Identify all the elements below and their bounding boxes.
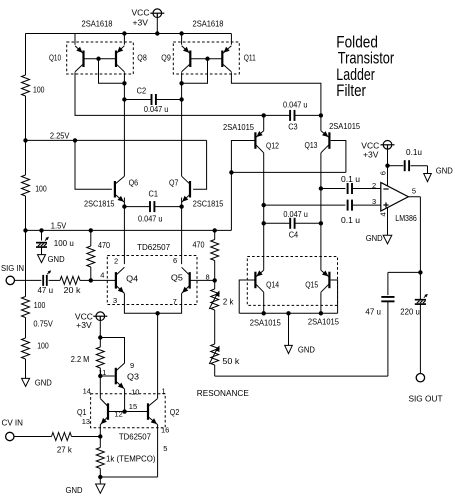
node pin8 junction (213, 278, 217, 282)
svg-text:4: 4 (100, 270, 104, 279)
svg-text:0.047 u: 0.047 u (144, 104, 169, 114)
svg-text:27 k: 27 k (57, 445, 73, 455)
junction C3 right / Q13 emitter (319, 113, 323, 117)
wire nodeA to 2.2M (99, 338, 101, 348)
enclosure Q10/Q8 dashed box (67, 42, 134, 74)
wire Q7 emitter to C1 node (181, 198, 183, 207)
wire Q8 collector column (123, 72, 125, 176)
svg-text:100: 100 (37, 341, 49, 351)
junction 2.25V at Q6 base drop (73, 138, 77, 142)
svg-text:+3V: +3V (133, 18, 149, 28)
wire Q7 emitter column to Q5 collector (181, 207, 183, 265)
op-amp plus sign (383, 204, 388, 206)
wire node4 to Q4 base (91, 279, 116, 281)
node Q1/Q2 base junction (122, 409, 126, 413)
wire Q14 base tie (239, 280, 255, 313)
wire Q6 emitter column to Q4 collector (123, 207, 125, 265)
svg-text:GND: GND (35, 378, 52, 388)
node output junction (418, 270, 422, 274)
svg-text:470: 470 (193, 240, 205, 250)
junction Q13 collector to pin2 cap (319, 186, 323, 190)
resistor 100 R-top2 (22, 175, 30, 196)
wire C2 right (156, 99, 182, 101)
wire 1.5V rail (26, 229, 232, 231)
junction 1.5V at 100u (39, 228, 43, 232)
svg-text:Q11: Q11 (244, 53, 256, 63)
wire pin5 output (408, 196, 420, 198)
svg-text:TD62507: TD62507 (119, 432, 151, 442)
node Q9/Q11 base junction (205, 57, 209, 61)
wire Q11 base (208, 58, 223, 60)
svg-text:1: 1 (162, 387, 166, 396)
svg-text:2: 2 (372, 181, 376, 190)
wire base bus (231, 171, 346, 173)
svg-text:SIG IN: SIG IN (1, 263, 24, 273)
ground GND bottom (96, 484, 105, 493)
svg-text:Q15: Q15 (305, 280, 318, 290)
svg-text:6: 6 (173, 256, 177, 265)
node pin4 junction (89, 278, 93, 282)
svg-text:RESONANCE: RESONANCE (197, 388, 249, 398)
svg-text:2SA1015: 2SA1015 (308, 317, 339, 327)
capacitor 220 u (415, 299, 426, 301)
wire 2k to 50k (214, 310, 216, 344)
svg-text:Q8: Q8 (137, 53, 147, 63)
capacitor C 100u (36, 242, 47, 244)
wire Q9 emitter up (181, 34, 183, 45)
wire Q3 base (100, 375, 114, 377)
svg-text:16: 16 (161, 426, 169, 435)
wire 1k to bottom (99, 469, 101, 478)
power VCC +3V lower symbol (96, 312, 105, 321)
svg-text:Q5: Q5 (171, 273, 183, 283)
wire resonance bottom (215, 375, 388, 377)
wire 2.2M to pin11 node (99, 368, 101, 376)
svg-text:Ladder: Ladder (336, 66, 375, 84)
svg-text:Q12: Q12 (266, 141, 279, 151)
junction C2 left (122, 97, 126, 101)
wire 50k down (214, 365, 216, 376)
wire node to 1k (99, 437, 101, 448)
svg-text:LM386: LM386 (395, 213, 417, 223)
svg-text:SIG OUT: SIG OUT (409, 394, 443, 404)
node A vcc junction (98, 335, 102, 339)
svg-text:2SA1015: 2SA1015 (329, 121, 360, 131)
transistor Q5 (189, 272, 191, 289)
svg-text:Q13: Q13 (305, 140, 318, 150)
wire ladder to 1.5V (25, 196, 27, 230)
wire 27k to node (72, 436, 101, 438)
svg-text:TD62507: TD62507 (137, 242, 170, 252)
svg-text:1k (TEMPCO): 1k (TEMPCO) (106, 454, 156, 464)
node pin11 junction (98, 374, 102, 378)
svg-text:Q6: Q6 (129, 178, 139, 188)
transistor Q13 (328, 132, 330, 149)
transistor Q12 (254, 132, 256, 149)
wire Q8 emitter up (123, 34, 125, 45)
wire node8 to Q5 base (190, 279, 215, 281)
wire C2 left (124, 99, 151, 101)
junction bottom bus Q14 (262, 311, 266, 315)
node VCC top rail wire (26, 33, 232, 35)
junction C4 right (319, 221, 323, 225)
resistor 2.2 M (96, 347, 104, 368)
wire output column (419, 197, 421, 273)
wire 470L bottom lead (90, 267, 92, 280)
wire Q10 emitter up (74, 34, 76, 45)
wire Q12 base jog (231, 141, 255, 231)
node 2.25V junction (23, 138, 27, 142)
svg-text:+3V: +3V (363, 150, 379, 160)
wire Q14 collector lead (263, 292, 265, 313)
svg-text:C2: C2 (137, 86, 147, 96)
terminal SIG IN (6, 276, 14, 284)
svg-text:2SA1015: 2SA1015 (223, 122, 254, 132)
svg-text:Q7: Q7 (169, 178, 179, 188)
svg-text:Folded: Folded (336, 33, 378, 51)
svg-text:6: 6 (379, 171, 388, 175)
wire pin2 cap right (352, 188, 381, 190)
svg-text:Q9: Q9 (161, 53, 171, 63)
junction filter feed at Q12 (262, 113, 266, 117)
junction bottom bus center (286, 311, 290, 315)
transistor Q6 (114, 181, 116, 198)
svg-text:Q14: Q14 (266, 280, 279, 290)
resistor 20 k (60, 276, 80, 284)
junction bottom bus Q15 (319, 311, 323, 315)
node emitter join (155, 311, 159, 315)
wire C4 left (264, 222, 291, 224)
wire bottom gnd stem (99, 477, 101, 484)
op-amp minus sign (383, 188, 388, 190)
wire Q15 collector lead (320, 292, 322, 313)
svg-text:C4: C4 (289, 230, 299, 240)
wire 47u bottom lead (387, 301, 389, 376)
wire Q2 base (125, 411, 148, 413)
wire pin6 vcc lead (387, 166, 389, 187)
wire Q9 collector column (181, 72, 183, 176)
wire Q14/Q15 bottom bus (239, 312, 337, 314)
svg-text:7: 7 (173, 297, 177, 306)
wire Q6 base from 2.25V (75, 140, 112, 189)
transistor Q3 (115, 368, 117, 385)
capacitor 0.1u pin3 (347, 200, 349, 211)
wire Q11 collector feed (231, 72, 321, 115)
junction Q12 collector to pin3 cap (262, 203, 266, 207)
enclosure TD62507 upper dashed box (107, 256, 197, 305)
wire 2.25V rail (26, 139, 207, 141)
svg-text:0.1 u: 0.1 u (341, 215, 360, 225)
terminal SIG OUT (416, 374, 424, 382)
ground GND at 100u (38, 255, 46, 263)
wire Q12 emitter lead (263, 115, 265, 130)
wire Q13 collector column (320, 153, 322, 270)
capacitor C2 0.047u (151, 94, 153, 105)
transistor Q8 (115, 51, 117, 68)
enclosure Q9/Q11 dashed box (173, 42, 239, 74)
resistor 1k TEMPCO (96, 448, 104, 469)
svg-text:2SA1618: 2SA1618 (82, 19, 113, 29)
svg-text:VCC: VCC (132, 8, 150, 18)
svg-text:0.1 u: 0.1 u (341, 174, 360, 184)
capacitor 47 u output (381, 296, 394, 298)
resistor 100 R-bot2 (22, 338, 30, 359)
wire Q9 base (190, 58, 207, 60)
wire Q9 base tie (182, 59, 208, 84)
svg-text:GND: GND (436, 166, 453, 176)
svg-text:GND: GND (66, 485, 83, 495)
wire nodeA to Q3 collector (100, 338, 124, 364)
wire ladder to gnd (25, 359, 27, 378)
capacitor 47u input (42, 275, 44, 286)
transistor Q11 (221, 51, 223, 68)
transistor Q1 (107, 403, 109, 420)
svg-text:13: 13 (82, 417, 90, 426)
svg-text:0.75V: 0.75V (33, 319, 53, 329)
wire Q7 base jog (193, 140, 207, 189)
svg-text:2SA1015: 2SA1015 (250, 318, 281, 328)
resistor 100 R-top1 (22, 75, 30, 96)
ground GND mid (285, 345, 293, 353)
wire Q5 emitter down (158, 293, 182, 313)
resistor 100 R-bot1 (22, 297, 30, 318)
capacitor C4 0.047u (289, 218, 291, 229)
svg-text:0.047 u: 0.047 u (138, 214, 163, 224)
svg-text:47 u: 47 u (365, 307, 381, 317)
svg-text:8: 8 (206, 272, 210, 281)
wire 470R top lead (214, 230, 216, 239)
potentiometer 50 k (211, 344, 219, 365)
transistor Q15 (328, 272, 330, 289)
wire pin4 gnd lead (387, 207, 389, 235)
transistor Q9 (189, 51, 191, 68)
node C1 left junction (122, 204, 126, 208)
svg-text:Transistor: Transistor (338, 50, 395, 68)
junction top rail at Q9 emitter (179, 31, 183, 35)
wire C3 right (295, 114, 321, 116)
wire C1 left (124, 206, 150, 208)
wire 100u lead (41, 230, 43, 240)
svg-text:3: 3 (372, 197, 376, 206)
svg-text:GND: GND (298, 345, 315, 355)
wire Q13 emitter lead (320, 115, 322, 130)
svg-text:Filter: Filter (336, 82, 366, 100)
wire Q4 emitter down (124, 293, 157, 313)
ground ladder GND (22, 378, 30, 386)
svg-text:15: 15 (129, 402, 137, 411)
svg-text:1.5V: 1.5V (51, 220, 67, 230)
wire 100u to gnd (41, 247, 43, 255)
wire Q1 emitter down (99, 425, 101, 437)
wire ladder to 2.25V (25, 96, 27, 140)
junction C2 right (179, 97, 183, 101)
terminal CV IN (6, 432, 14, 440)
transistor Q4 (115, 272, 117, 289)
svg-text:5: 5 (412, 187, 416, 196)
svg-text:14: 14 (83, 387, 91, 396)
wire node8 to 2k (214, 280, 216, 289)
wire bottom bus (100, 476, 157, 478)
wire 47u top lead (387, 272, 389, 295)
wire 220u to sig out (419, 304, 421, 373)
wire center bus to gnd (288, 313, 290, 345)
enclosure Q14/Q15 dashed box (247, 257, 337, 306)
wire Q1 collector up (99, 376, 101, 398)
svg-text:Q2: Q2 (170, 407, 180, 417)
wire Q6 emitter to C1 node (123, 198, 125, 207)
wire 220u top lead (419, 272, 421, 299)
wire Q12 collector column (263, 153, 265, 270)
wire Q10 base (84, 58, 99, 60)
wire pin3 cap left (264, 204, 346, 206)
wire ladder 2.25V to R (25, 140, 27, 175)
wire 470R bottom lead (214, 261, 216, 281)
resistor 470 right (211, 240, 219, 261)
wire ladder top lead (25, 34, 27, 76)
junction C4 left (262, 221, 266, 225)
ground GND pin4 (383, 235, 392, 244)
wire sigin to cap (15, 279, 42, 281)
node C1 right junction (179, 204, 183, 208)
svg-text:20 k: 20 k (64, 285, 82, 295)
wire Q1 base (108, 411, 125, 413)
resistor 470 left (87, 246, 95, 267)
ground GND decoupling (424, 174, 432, 182)
wire ladder 0.75V (25, 318, 27, 339)
svg-text:CV IN: CV IN (2, 418, 24, 428)
node Q10/Q8 base junction (96, 57, 100, 61)
svg-text:100: 100 (35, 184, 47, 194)
svg-text:10: 10 (131, 388, 139, 397)
svg-text:2: 2 (114, 257, 118, 266)
svg-text:Q3: Q3 (127, 372, 139, 382)
svg-text:470: 470 (98, 240, 110, 250)
svg-text:2SA1618: 2SA1618 (193, 19, 224, 29)
junction Q9 collector tie (179, 81, 183, 85)
junction 1.5V at 470L (89, 228, 93, 232)
node base bus tee (229, 170, 233, 174)
svg-text:5: 5 (163, 444, 167, 453)
wire Q15 base tie (331, 280, 338, 313)
wire top rail corner to Q11 emitter (230, 34, 232, 45)
svg-text:47 u: 47 u (38, 285, 54, 295)
wire tail current column (157, 313, 159, 398)
svg-text:Q10: Q10 (49, 53, 61, 63)
transistor Q7 (189, 181, 191, 198)
svg-text:2.2 M: 2.2 M (71, 354, 90, 364)
wire Q2 emitter down (157, 425, 159, 477)
transistor Q10 (82, 51, 84, 68)
svg-text:C3: C3 (288, 122, 298, 132)
enclosure TD62507 lower dashed box (91, 394, 166, 428)
wire gnd stem decoupling (427, 166, 429, 174)
svg-text:GND: GND (48, 254, 65, 264)
svg-text:100: 100 (33, 85, 45, 95)
wire vcc to 0.1u (388, 165, 404, 167)
junction 1.5V at 470R (213, 228, 217, 232)
svg-text:4: 4 (379, 212, 388, 216)
node pin6 junction (385, 164, 389, 168)
wire out to 47u (388, 271, 421, 273)
potentiometer 2 k (211, 289, 219, 310)
wire Q10 collector down (75, 72, 264, 115)
capacitor 0.1u decoupling (404, 160, 406, 171)
wire C1 right (154, 206, 181, 208)
svg-text:C1: C1 (149, 189, 159, 199)
capacitor 0.1u pin2 (347, 183, 349, 194)
svg-text:50 k: 50 k (222, 356, 240, 366)
power VCC +3V top symbol (153, 9, 162, 18)
capacitor C3 0.047u (289, 110, 291, 121)
svg-text:+3V: +3V (76, 320, 92, 330)
wire Q3 emitter down (124, 389, 126, 411)
svg-text:Q4: Q4 (126, 274, 138, 284)
svg-text:2SC1815: 2SC1815 (193, 199, 224, 209)
wire C3 left (264, 114, 290, 116)
node 1.5V junction (23, 228, 27, 232)
svg-text:Q1: Q1 (77, 407, 87, 417)
svg-text:9: 9 (130, 361, 134, 370)
capacitor C1 0.047u (149, 201, 151, 212)
svg-text:220 u: 220 u (400, 307, 420, 317)
svg-text:2 k: 2 k (223, 297, 234, 307)
wire ladder 1.5V down (25, 230, 27, 296)
transistor Q14 (254, 272, 256, 289)
wire cvin to 27k (14, 436, 52, 438)
resistor 27 k (52, 433, 72, 441)
node bottom junction (98, 475, 102, 479)
wire Q8 base (99, 58, 117, 60)
wire pin2 cap left (321, 188, 346, 190)
wire 470L top lead (90, 230, 92, 246)
svg-text:2SC1815: 2SC1815 (84, 199, 115, 209)
wire Q8 base tie (99, 59, 125, 84)
junction top rail at Q8 emitter (122, 31, 126, 35)
junction Q8 collector tie (122, 81, 126, 85)
wire C4 right (295, 222, 321, 224)
svg-text:3: 3 (113, 296, 117, 305)
wire 0.1u to gnd (411, 165, 428, 167)
junction top rail at VCC (155, 31, 159, 35)
wire 20k to node4 (80, 279, 91, 281)
transistor Q2 (147, 403, 149, 420)
svg-text:2.25V: 2.25V (50, 131, 70, 141)
power VCC +3V LM386 symbol (383, 141, 392, 150)
svg-text:GND: GND (366, 233, 383, 243)
svg-text:0.047 u: 0.047 u (283, 209, 308, 219)
wire cap to 20k (49, 279, 60, 281)
svg-text:0.047 u: 0.047 u (283, 100, 308, 110)
wire pin3 cap right (352, 204, 381, 206)
svg-text:12: 12 (115, 410, 123, 419)
node CV junction (98, 434, 102, 438)
wire Q13 base jog (331, 141, 346, 173)
op-amp U1 LM386 triangle (381, 183, 409, 212)
svg-text:100 u: 100 u (54, 238, 74, 248)
svg-text:0.1u: 0.1u (406, 147, 422, 157)
svg-text:100: 100 (34, 300, 46, 310)
